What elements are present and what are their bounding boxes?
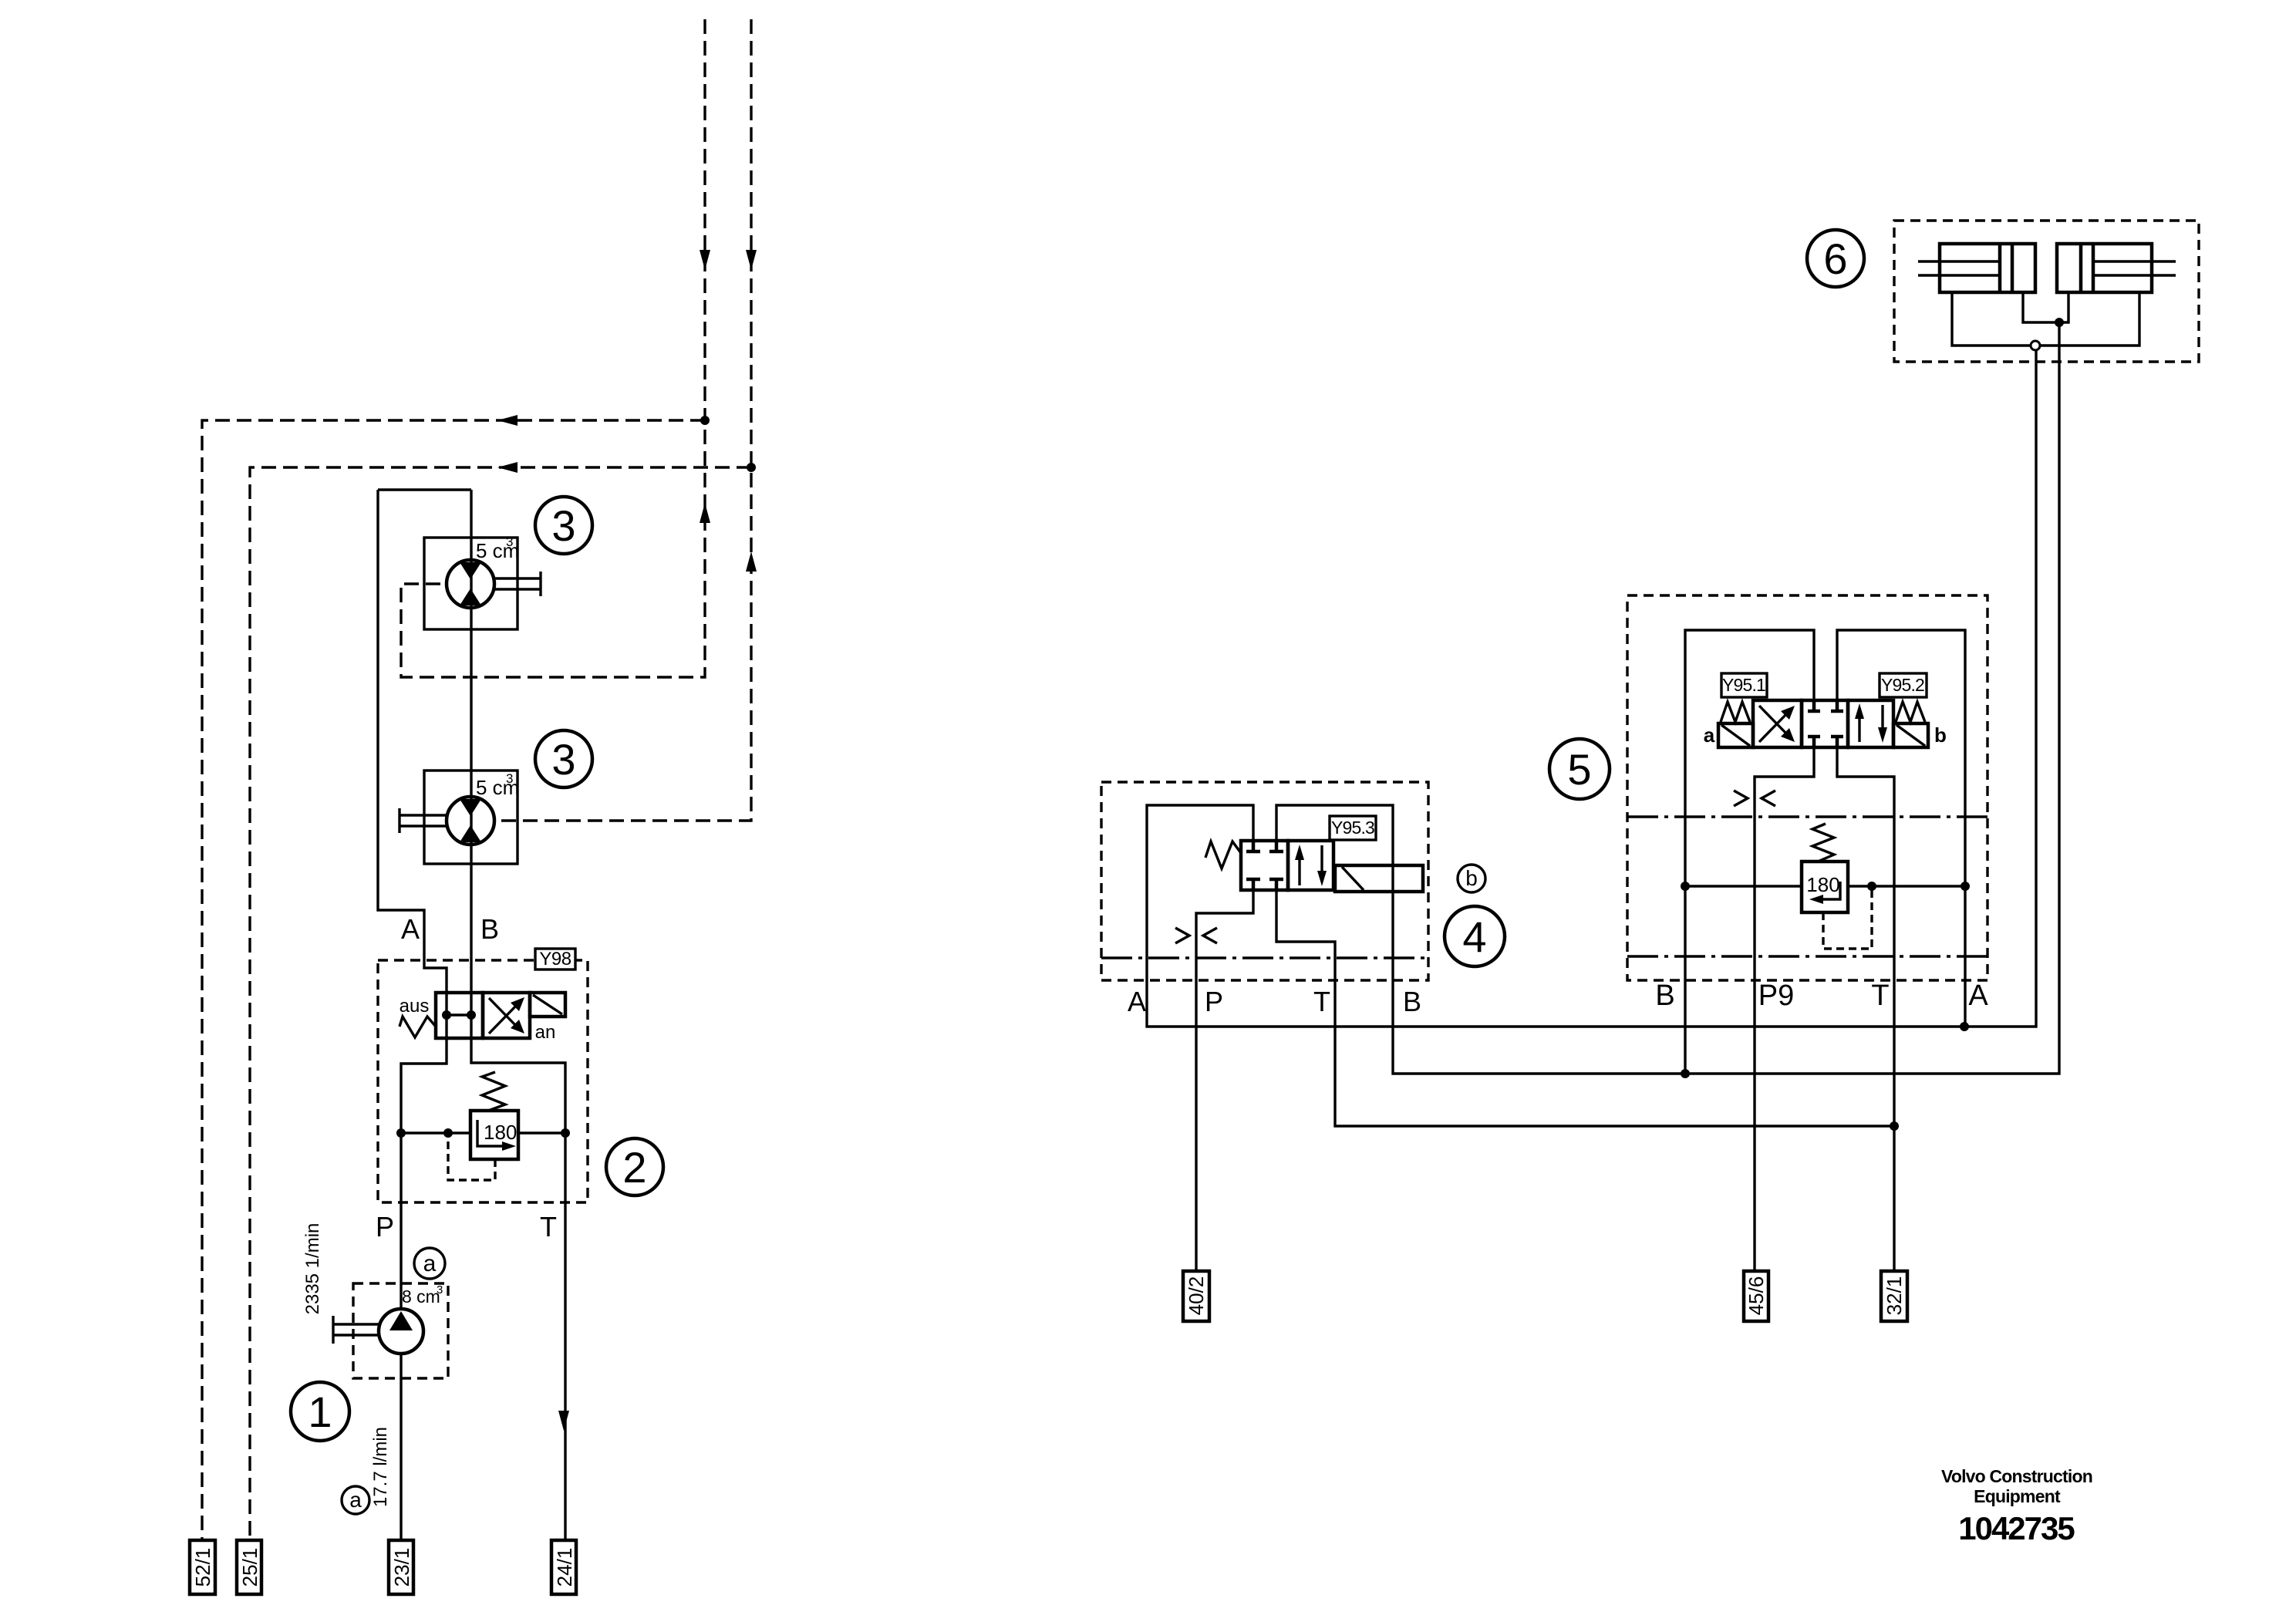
svg-text:Y98: Y98 — [539, 949, 571, 969]
svg-text:180: 180 — [484, 1121, 517, 1144]
svg-text:A: A — [401, 913, 420, 945]
svg-text:a: a — [349, 1488, 362, 1512]
svg-text:45/6: 45/6 — [1745, 1276, 1768, 1316]
svg-text:Y95.3: Y95.3 — [1331, 818, 1374, 838]
svg-text:3: 3 — [437, 1283, 443, 1297]
svg-text:a: a — [1704, 723, 1715, 747]
svg-text:B: B — [1655, 980, 1674, 1012]
svg-text:23/1: 23/1 — [390, 1548, 413, 1587]
svg-text:3: 3 — [506, 771, 513, 786]
svg-text:4: 4 — [1462, 912, 1486, 961]
svg-text:52/1: 52/1 — [191, 1548, 214, 1587]
svg-text:b: b — [1934, 723, 1947, 747]
svg-text:3: 3 — [506, 534, 513, 549]
svg-text:P: P — [376, 1211, 394, 1243]
svg-text:2335 1/min: 2335 1/min — [302, 1223, 323, 1315]
svg-text:B: B — [480, 913, 499, 945]
svg-text:6: 6 — [1823, 234, 1847, 283]
svg-text:1042735: 1042735 — [1958, 1510, 2075, 1546]
svg-text:24/1: 24/1 — [553, 1548, 576, 1587]
svg-text:Volvo Construction: Volvo Construction — [1941, 1466, 2092, 1486]
svg-text:Y95.1: Y95.1 — [1722, 675, 1765, 695]
svg-text:1: 1 — [308, 1388, 332, 1436]
svg-text:an: an — [535, 1022, 556, 1043]
svg-text:5: 5 — [1567, 745, 1591, 794]
svg-text:B: B — [1403, 986, 1421, 1017]
svg-text:2: 2 — [622, 1143, 646, 1192]
svg-text:T: T — [1313, 986, 1330, 1017]
svg-text:32/1: 32/1 — [1883, 1276, 1906, 1316]
svg-text:Equipment: Equipment — [1974, 1486, 2061, 1506]
svg-text:a: a — [423, 1251, 437, 1276]
svg-text:40/2: 40/2 — [1185, 1276, 1208, 1316]
svg-text:P9: P9 — [1758, 980, 1794, 1012]
svg-text:b: b — [1465, 866, 1478, 890]
svg-text:T: T — [1871, 980, 1889, 1012]
svg-text:17.7 l/min: 17.7 l/min — [370, 1427, 391, 1507]
svg-text:Y95.2: Y95.2 — [1881, 675, 1924, 695]
svg-text:3: 3 — [551, 501, 575, 550]
svg-text:A: A — [1128, 986, 1146, 1017]
svg-text:P: P — [1205, 986, 1223, 1017]
svg-text:180: 180 — [1806, 873, 1839, 896]
svg-text:3: 3 — [551, 735, 575, 784]
svg-text:25/1: 25/1 — [238, 1548, 261, 1587]
svg-text:A: A — [1968, 980, 1988, 1012]
svg-text:aus: aus — [400, 996, 430, 1017]
svg-text:8 cm: 8 cm — [402, 1286, 440, 1307]
svg-text:T: T — [540, 1211, 557, 1243]
